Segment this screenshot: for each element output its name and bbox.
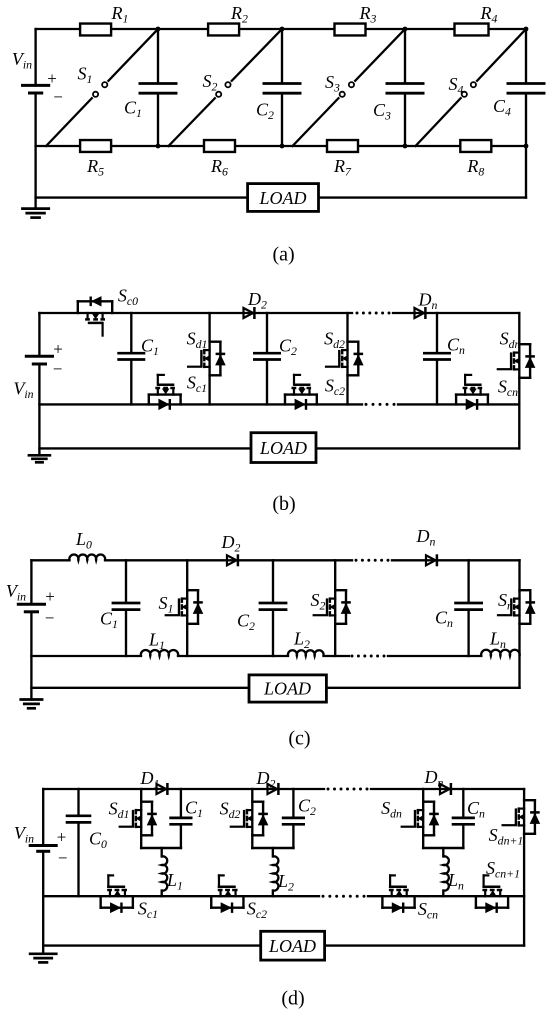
capacitor C1 (d): [169, 797, 203, 824]
wire mid rail 2 (c): [178, 655, 288, 657]
LOAD box (a): [248, 184, 319, 212]
LOAD box (b): [251, 433, 316, 463]
transistor Sc2 (d): [211, 875, 267, 921]
inductor Ln (d): [443, 848, 464, 896]
transistor Sn (c): [498, 590, 535, 624]
wire mid rail 4 (c): [388, 655, 481, 657]
wire switch branch Sd2 (b): [346, 313, 348, 404]
node dot bottom rail (a): [156, 144, 161, 149]
inductor L1 (d): [162, 848, 183, 896]
LOAD box (d): [261, 931, 325, 960]
transistor S1 (c): [159, 590, 203, 624]
svg-text:(a): (a): [272, 244, 294, 266]
dotted continuation top rail (d): [327, 788, 369, 791]
wire right rail (c): [518, 560, 520, 688]
caption (c): [288, 728, 310, 750]
wire switch branch S2 (c): [334, 560, 336, 656]
dotted continuation mid rail (b): [365, 403, 396, 406]
capacitor Cn (c): [435, 603, 483, 630]
wire top rail (c): [105, 559, 352, 561]
capacitor C2 (d): [282, 795, 316, 824]
node dot bottom rail (a): [524, 144, 529, 149]
wire right to load (c): [326, 687, 519, 689]
wire top rail right (c): [392, 559, 520, 561]
diode D2 (b): [244, 289, 268, 319]
wire capacitor branch C2 (b): [266, 313, 268, 404]
Vin source (c): [6, 581, 55, 628]
wire capacitor branch C1 (c): [125, 560, 127, 656]
svg-text:−: −: [45, 609, 55, 628]
capacitor C0: [66, 816, 107, 851]
wire switch branch Sdn (d): [422, 789, 424, 848]
ground (d): [29, 954, 58, 963]
wire right rail (d): [523, 789, 525, 946]
wire top rail left (c): [31, 559, 69, 561]
transistor Scn (d): [382, 875, 438, 921]
caption (a): [272, 244, 294, 266]
svg-text:+: +: [47, 69, 57, 88]
wire bottom rail (a): [36, 145, 526, 147]
dotted continuation mid rail (d): [322, 895, 366, 898]
resistor R4: [455, 3, 498, 35]
wire top rail (a): [36, 28, 526, 30]
capacitor C4: [493, 84, 545, 119]
transistor Sd2 (d): [220, 798, 268, 835]
wire capacitor branch C2 (a): [281, 29, 283, 146]
wire capacitor branch C1 (d): [180, 789, 182, 848]
wire capacitor branch C4 (a): [525, 29, 527, 146]
inductor Ln (c): [481, 628, 520, 656]
diode D2 (d): [256, 768, 279, 795]
transistor Sdn: [498, 328, 535, 377]
wire junction bar stage 1 (d): [141, 847, 181, 850]
node dot top rail (a): [403, 27, 408, 32]
svg-text:(c): (c): [288, 728, 310, 750]
capacitor C3: [373, 84, 424, 123]
dotted continuation top rail (b): [356, 312, 391, 315]
transistor Sdn+1: [489, 800, 540, 847]
wire left rail lower (a): [34, 93, 36, 208]
Vin source (b): [13, 340, 62, 401]
capacitor C1 (b): [117, 335, 159, 359]
wire left rail upper (d): [42, 789, 44, 846]
wire junction bar stage n (d): [423, 847, 463, 850]
node dot bottom rail (a): [403, 144, 408, 149]
resistor R1: [80, 3, 128, 35]
capacitor C1: [124, 84, 177, 120]
diode D2 (c): [221, 532, 241, 566]
resistor R5: [80, 140, 111, 179]
wire capacitor branch Cn (d): [462, 789, 464, 848]
wire top rail right (d): [371, 788, 524, 790]
transistor Sd1 (d): [109, 798, 157, 835]
transistor Scn+1: [476, 858, 520, 913]
wire capacitor branch Cn (c): [467, 560, 469, 656]
wire left to load (d): [43, 944, 261, 946]
ground (a): [21, 209, 50, 218]
wire mid rail (b): [39, 403, 362, 405]
transistor Scn: [456, 375, 518, 410]
wire left rail lower (c): [30, 612, 32, 700]
capacitor C2 (c): [237, 603, 287, 633]
svg-text:−: −: [53, 360, 63, 379]
dotted continuation top rail (c): [355, 559, 390, 562]
wire left rail lower (d): [42, 851, 44, 954]
wire mid rail right (b): [398, 403, 519, 405]
wire capacitor branch C2 (c): [272, 560, 274, 656]
wire switch branch S1 (c): [186, 560, 188, 656]
resistor R6: [204, 140, 235, 179]
node dot top rail (a): [524, 27, 529, 32]
wire switch branch Sd2 (d): [251, 789, 253, 848]
Vin source (a): [12, 49, 63, 107]
svg-text:+: +: [57, 828, 67, 847]
switch S1: [46, 29, 158, 146]
Vin source (d): [14, 823, 68, 868]
transistor Sd1: [187, 328, 226, 375]
svg-text:LOAD: LOAD: [268, 936, 316, 956]
inductor L1 (c): [141, 629, 178, 656]
svg-text:LOAD: LOAD: [258, 188, 306, 208]
resistor R3: [335, 3, 377, 35]
capacitor Cn (d): [452, 798, 485, 824]
wire left rail upper (b): [38, 313, 40, 356]
svg-text:LOAD: LOAD: [259, 438, 307, 458]
capacitor Cn (b): [423, 334, 465, 359]
wire switch branch Sd1 (d): [140, 789, 142, 848]
wire mid rail left (d): [43, 895, 319, 897]
transistor Sc1: [149, 372, 207, 409]
wire top rail (b): [39, 312, 352, 314]
wire mid rail 1 (c): [31, 655, 141, 657]
inductor L0: [69, 529, 105, 560]
transistor S2 (c): [311, 590, 351, 624]
dotted continuation mid rail (c): [351, 655, 386, 658]
wire right rail to load (a): [319, 146, 527, 198]
svg-text:−: −: [53, 88, 63, 107]
node dot top rail (a): [280, 27, 285, 32]
wire left to load (b): [39, 447, 251, 449]
wire capacitor branch C3 (a): [404, 29, 406, 146]
diode Dn (c): [416, 526, 437, 566]
inductor L2 (c): [288, 628, 324, 656]
node dot top rail (a): [156, 27, 161, 32]
wire top rail (d): [43, 788, 324, 790]
node dot bottom rail (a): [280, 144, 285, 149]
svg-text:−: −: [58, 849, 68, 868]
capacitor C1 (c): [100, 603, 140, 631]
switch S2: [169, 29, 283, 146]
wire capacitor branch C1 (a): [157, 29, 159, 146]
wire left rail upper (c): [30, 560, 32, 604]
svg-text:+: +: [45, 587, 55, 606]
diode Dn (b): [415, 289, 438, 319]
diode Dn (d): [424, 767, 451, 795]
resistor R7: [327, 140, 358, 179]
ground (c): [19, 700, 43, 709]
wire mid rail 3 (c): [324, 655, 350, 657]
wire left rail lower (b): [38, 364, 40, 455]
wire left to load (a): [36, 196, 248, 198]
capacitor C2: [256, 84, 301, 122]
transistor Sc1 (d): [101, 875, 158, 921]
wire capacitor branch Cn (b): [436, 313, 438, 404]
wire capacitor branch C0: [77, 789, 79, 896]
wire right rail (b): [518, 313, 520, 448]
wire left to load (c): [31, 687, 249, 689]
ground (b): [28, 455, 52, 462]
wire capacitor branch C1 (b): [130, 313, 132, 404]
diode D1 (d): [140, 768, 168, 795]
LOAD box (c): [249, 675, 326, 702]
caption (d): [281, 988, 304, 1010]
svg-text:+: +: [53, 340, 63, 359]
transistor Sdn (d): [381, 798, 439, 835]
inductor L2 (d): [273, 848, 294, 896]
wire right to load (d): [325, 944, 524, 946]
svg-text:(b): (b): [272, 493, 295, 515]
wire left rail upper (a): [34, 29, 36, 85]
svg-text:LOAD: LOAD: [263, 678, 311, 698]
wire right to load (b): [316, 447, 519, 449]
switch Sc0: [78, 285, 138, 335]
transistor Sc2: [285, 375, 345, 410]
transistor Sd2: [324, 328, 363, 375]
svg-text:(d): (d): [281, 988, 304, 1010]
wire capacitor branch C2 (d): [292, 789, 294, 848]
wire junction bar stage 2 (d): [252, 847, 293, 850]
wire top rail right (b): [393, 312, 519, 314]
wire mid rail right (d): [368, 895, 524, 897]
resistor R2: [208, 3, 248, 35]
capacitor C2 (b): [253, 335, 297, 359]
resistor R8: [460, 140, 491, 179]
switch S3: [293, 29, 406, 146]
switch S4: [416, 29, 527, 146]
caption (b): [272, 493, 295, 515]
wire switch branch Sd1 (b): [208, 313, 210, 404]
